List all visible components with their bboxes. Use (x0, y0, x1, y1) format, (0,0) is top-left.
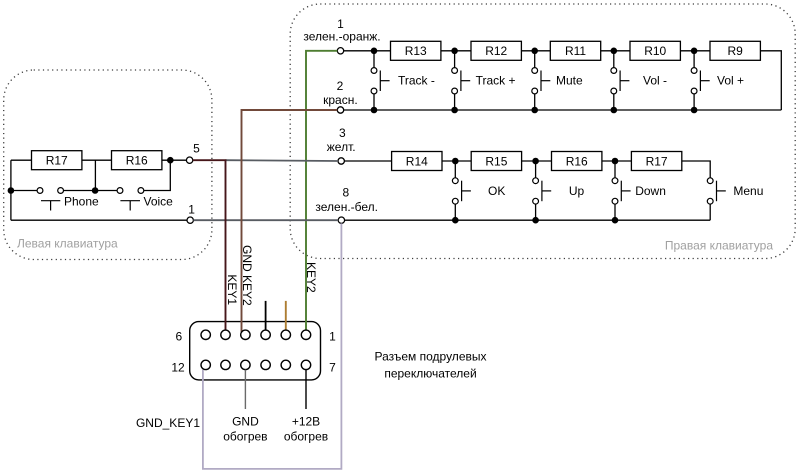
wire left bus vertical (10, 160, 12, 220)
junction row1 c (531, 48, 538, 55)
wire stub pin 2 (orange) (285, 301, 287, 330)
junction left bus / Phone branch (8, 187, 15, 194)
svg-text:6: 6 (176, 329, 183, 343)
wire GND KEY2 (brown): node 2 to connector pin 4 (242, 110, 338, 332)
wire row1 rail (344, 109, 782, 111)
resistor R13 (391, 41, 441, 60)
connector pin 1 (301, 330, 310, 339)
svg-text:Правая клавиатура: Правая клавиатура (665, 238, 773, 252)
wire row2: terminal 3 to R14 (344, 160, 391, 162)
svg-text:R9: R9 (728, 44, 744, 58)
svg-text:1: 1 (329, 329, 336, 343)
push-button SW Vol+ (691, 51, 744, 110)
wire KEY1 (dark red): node 5 to connector pin 5 (193, 160, 226, 330)
wire pin 7 to +12В обогрев (305, 370, 307, 409)
connector pin 7 (301, 360, 310, 369)
resistor R10 (630, 41, 680, 60)
connector pin 10 (241, 360, 250, 369)
svg-text:KEY2: KEY2 (304, 262, 318, 293)
junction row1 rail (611, 107, 618, 114)
wire left kb top: bus to R17 (11, 159, 32, 161)
wire row2 rail (345, 219, 711, 221)
node 3 terminal (желт.) (327, 126, 356, 164)
wire (601, 50, 630, 52)
junction row1 rail (451, 107, 458, 114)
svg-text:+12В: +12В (292, 415, 320, 429)
resistor R14 (392, 152, 442, 171)
svg-text:Разъем подрулевых: Разъем подрулевых (374, 350, 486, 364)
junction row1 d (611, 48, 618, 55)
svg-text:переключателей: переключателей (384, 367, 476, 381)
push-button SW Menu (707, 178, 763, 220)
svg-text:12: 12 (171, 361, 185, 375)
svg-text:R14: R14 (406, 154, 428, 168)
wire (602, 160, 632, 162)
svg-text:R15: R15 (485, 154, 507, 168)
junction row2 b (532, 158, 539, 165)
push-button SW Mute (532, 51, 583, 110)
label: Разъем подрулевых переключателей (374, 350, 486, 381)
svg-text:Track -: Track - (398, 74, 435, 88)
svg-text:Up: Up (569, 184, 585, 198)
wire GND_KEY1 (lavender): node 8 to connector pin 12 (203, 223, 342, 469)
connector pin 2 (281, 330, 290, 339)
resistor R17 (631, 152, 681, 171)
svg-text:Voice: Voice (144, 195, 174, 209)
resistor R15 (471, 152, 521, 171)
connector body (разъем) (190, 322, 321, 380)
wire Voice to node 5 branch (144, 160, 171, 190)
wire (680, 50, 710, 52)
push-button SW Down (612, 161, 666, 220)
svg-text:R10: R10 (644, 44, 666, 58)
wire: R9 output to row1 rail (right bend) (760, 51, 781, 110)
junction row1 rail (531, 107, 538, 114)
right keyboard enclosure (dotted) (290, 4, 795, 259)
label +12В обогрев (284, 415, 328, 444)
label GND обогрев (223, 415, 267, 444)
svg-text:красн.: красн. (323, 93, 358, 107)
svg-text:R13: R13 (405, 44, 427, 58)
push-button SW Voice (95, 160, 173, 210)
junction row2 rail (532, 217, 539, 224)
connector pin 6 (201, 330, 210, 339)
wire (441, 50, 471, 52)
junction left top (node to Voice) (167, 157, 174, 164)
svg-text:R11: R11 (565, 44, 586, 58)
svg-text:R16: R16 (126, 154, 148, 168)
svg-text:OK: OK (488, 184, 505, 198)
wire KEY1 net extension (gray) to node 3 (226, 159, 339, 162)
svg-text:желт.: желт. (327, 140, 356, 154)
svg-text:зелен.-бел.: зелен.-бел. (315, 200, 378, 214)
svg-text:Vol +: Vol + (717, 74, 744, 88)
junction row1 rail (691, 107, 698, 114)
svg-text:GND_KEY1: GND_KEY1 (136, 416, 200, 430)
resistor R11 (550, 41, 600, 60)
wire mid vertical R17/R16 node down (94, 160, 96, 190)
svg-text:обогрев: обогрев (284, 430, 328, 444)
svg-text:2: 2 (337, 79, 344, 93)
svg-text:Левая клавиатура: Левая клавиатура (17, 236, 118, 250)
resistor R17 (left) (32, 151, 82, 170)
junction row1 a (371, 48, 378, 55)
svg-text:3: 3 (339, 126, 346, 140)
connector pin 11 (221, 360, 230, 369)
svg-text:GND: GND (232, 415, 259, 429)
junction row1 rail (371, 107, 378, 114)
svg-text:8: 8 (343, 185, 350, 199)
connector pin 5 (221, 330, 230, 339)
svg-text:Track +: Track + (476, 74, 516, 88)
resistor R12 (471, 41, 521, 60)
wire pin 10 to GND обогрев (244, 370, 246, 409)
svg-text:Phone: Phone (64, 195, 99, 209)
svg-text:7: 7 (329, 361, 336, 375)
push-button SW OK (452, 161, 505, 220)
junction mid node / Voice branch (92, 187, 99, 194)
resistor R16 (left) (112, 151, 162, 170)
connector pin 12 (201, 360, 210, 369)
wire (442, 160, 471, 162)
node 8 terminal (зелен.-бел.) (315, 185, 378, 223)
wire left kb bottom rail (11, 219, 187, 221)
svg-text:Down: Down (635, 184, 666, 198)
node 2 terminal (красн.) (323, 79, 358, 113)
node 1 terminal (зелен.-оранж.) (303, 17, 380, 54)
svg-text:R16: R16 (566, 154, 588, 168)
resistor R9 (710, 41, 760, 60)
junction row1 b (451, 48, 458, 55)
svg-text:Mute: Mute (556, 74, 583, 88)
push-button SW Track- (371, 51, 435, 110)
wire (82, 159, 112, 161)
left keyboard enclosure (dotted) (4, 70, 212, 260)
push-button SW Up (533, 161, 585, 220)
connector pin 3 (261, 330, 270, 339)
wire: R17 output bend to Menu button (682, 161, 710, 178)
junction row2 rail (612, 217, 619, 224)
svg-text:R17: R17 (46, 154, 68, 168)
junction row1 e (691, 48, 698, 55)
resistor R16 (552, 152, 602, 171)
connector pin 9 (261, 360, 270, 369)
node 1 terminal (left kb) (187, 203, 195, 224)
svg-text:R12: R12 (485, 44, 507, 58)
svg-text:Vol -: Vol - (643, 74, 667, 88)
svg-text:обогрев: обогрев (223, 430, 267, 444)
svg-text:5: 5 (193, 142, 200, 156)
wire KEY2 (green): node 1 to connector pin 1 (306, 51, 337, 331)
wire GND (gray): left node 1 to node 8 (193, 219, 338, 221)
push-button SW Track+ (452, 51, 516, 110)
junction row2 rail (452, 217, 459, 224)
wire (522, 160, 552, 162)
svg-text:KEY1: KEY1 (225, 274, 239, 305)
svg-text:зелен.-оранж.: зелен.-оранж. (303, 30, 380, 44)
junction row2 a (452, 158, 459, 165)
svg-text:1: 1 (188, 203, 195, 217)
wire (162, 159, 187, 161)
wire row1 top: terminal 1 to R13 (344, 50, 391, 52)
svg-text:GND KEY2: GND KEY2 (240, 245, 254, 306)
svg-text:Menu: Menu (733, 184, 763, 198)
wire (521, 50, 550, 52)
push-button SW Phone (11, 188, 99, 211)
connector pin 4 (241, 330, 250, 339)
svg-text:R17: R17 (646, 154, 668, 168)
push-button SW Vol- (611, 51, 667, 110)
node 5 terminal (186, 142, 200, 164)
wire stub pin 3 (black) (265, 301, 267, 330)
connector pin 8 (281, 360, 290, 369)
junction row2 c (612, 158, 619, 165)
